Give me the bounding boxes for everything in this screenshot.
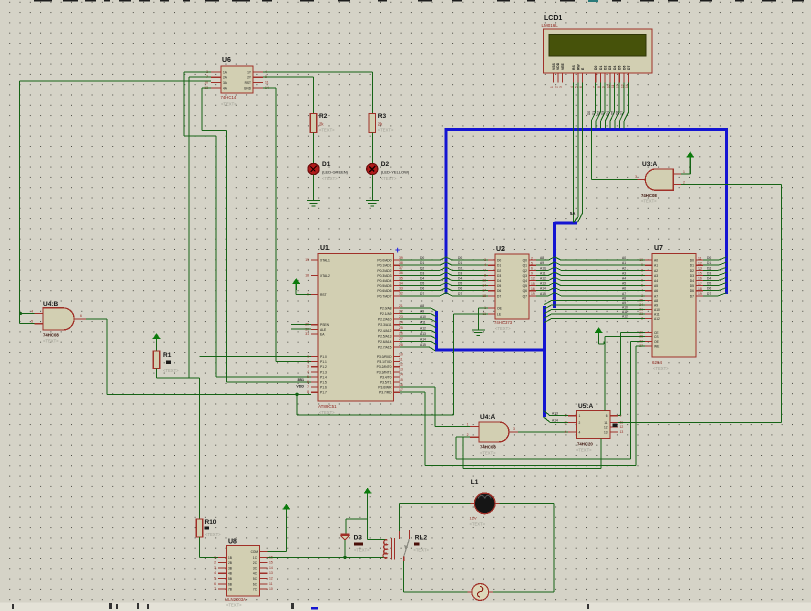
svg-text:A2: A2: [622, 266, 626, 270]
svg-text:31: 31: [305, 332, 309, 336]
svg-text:A9: A9: [654, 304, 658, 308]
svg-text:D6: D6: [615, 111, 619, 115]
relay RL2 labels: [413, 535, 429, 553]
svg-text:2B: 2B: [228, 561, 232, 565]
wire U5:A pin6 up to U7 CE: [618, 332, 645, 415]
svg-text:(LED-YELLOW): (LED-YELLOW): [381, 170, 410, 175]
svg-text:7: 7: [484, 268, 486, 272]
svg-text:11: 11: [698, 256, 702, 260]
svg-text:R10: R10: [205, 519, 217, 526]
wire U4:A output to U5:A: [518, 431, 568, 433]
wire power down to coil top: [367, 496, 369, 540]
svg-text:18: 18: [305, 273, 309, 277]
svg-text:A13: A13: [552, 412, 558, 416]
U7 control pins: [639, 330, 660, 348]
svg-text:2: 2: [579, 421, 581, 425]
wire U6 right pin1 to R3: [263, 72, 372, 114]
svg-text:P0.3/AD3: P0.3/AD3: [377, 274, 391, 278]
wire LCD E down to bus: [578, 82, 583, 222]
svg-text:19: 19: [698, 292, 702, 296]
wire U4:B output to U1 P1.7 and down: [86, 319, 311, 394]
power arrow at U1 RST: [292, 279, 300, 290]
svg-text:D5: D5: [497, 284, 501, 288]
svg-text:R1: R1: [163, 352, 172, 359]
wire D2 to ground: [371, 175, 373, 196]
svg-text:<TEXT>: <TEXT>: [319, 410, 335, 415]
wire coil top feed: [368, 539, 386, 541]
svg-text:D3: D3: [497, 274, 501, 278]
svg-text:D4: D4: [497, 279, 501, 283]
U4:B output pin: [74, 314, 86, 319]
svg-text:1: 1: [214, 555, 216, 559]
svg-text:D3: D3: [608, 66, 612, 70]
svg-text:A1: A1: [622, 261, 626, 265]
svg-text:D4: D4: [707, 277, 711, 281]
ground: [472, 325, 485, 335]
svg-text:D1: D1: [420, 261, 424, 265]
svg-text:33: 33: [399, 287, 403, 291]
svg-text:17: 17: [698, 282, 702, 286]
wire U6 pin4 staircase to U1 P1.5: [202, 88, 311, 382]
svg-text:7B: 7B: [228, 588, 232, 592]
wire U1 P1.0 row: [200, 356, 312, 358]
svg-text:A13: A13: [420, 332, 426, 336]
svg-text:D1: D1: [690, 264, 694, 268]
svg-text:6: 6: [214, 582, 216, 586]
U4:B input pins: [31, 309, 43, 323]
svg-text:VDD: VDD: [556, 62, 560, 70]
svg-text:34: 34: [399, 281, 403, 285]
svg-text:U8: U8: [228, 539, 237, 546]
svg-text:A11: A11: [654, 313, 660, 317]
svg-text:5A: 5A: [570, 211, 575, 216]
wire U2 OE to ground: [478, 308, 488, 325]
svg-text:D1: D1: [322, 161, 331, 168]
wire U8 COM to power: [268, 512, 287, 552]
svg-text:P3.1/TXD: P3.1/TXD: [377, 360, 392, 364]
svg-text:2: 2: [531, 256, 533, 260]
svg-text:<TEXT>: <TEXT>: [470, 522, 486, 527]
svg-text:<TEXT>: <TEXT>: [413, 548, 429, 553]
svg-text:D6: D6: [622, 66, 626, 70]
svg-text:A15: A15: [420, 343, 426, 347]
wire R1 to R10: [157, 369, 200, 520]
resistor R10: [196, 519, 221, 537]
svg-text:13: 13: [698, 267, 702, 271]
svg-text:Q2: Q2: [523, 269, 528, 273]
svg-text:U1: U1: [320, 245, 329, 252]
svg-text:A8: A8: [540, 256, 544, 260]
power arrow above U3:A: [687, 153, 695, 164]
svg-text:GND: GND: [244, 86, 252, 90]
svg-text:P1.7: P1.7: [320, 391, 327, 395]
U2 D pins: [482, 258, 501, 298]
ground: [307, 196, 320, 206]
svg-text:RS: RS: [572, 65, 576, 70]
svg-text:Q0: Q0: [523, 259, 528, 263]
svg-text:P0.0/AD0: P0.0/AD0: [377, 259, 391, 263]
svg-text:13: 13: [269, 571, 273, 575]
wire loop bottom-right: [493, 591, 554, 593]
svg-text:6B: 6B: [228, 582, 232, 586]
svg-text:Q6: Q6: [523, 289, 528, 293]
svg-text:13: 13: [482, 279, 486, 283]
svg-text:A14: A14: [540, 287, 546, 291]
svg-text:D2: D2: [420, 266, 424, 270]
wire U4:A input2 from below: [456, 437, 470, 459]
svg-text:9: 9: [531, 272, 533, 276]
bus exits to U5:A inputs: [544, 411, 568, 423]
U2 OE LE pins: [482, 306, 502, 317]
svg-text:U7: U7: [654, 245, 663, 252]
svg-text:RL2: RL2: [415, 535, 428, 542]
wire U7 CS to U5:A top: [605, 337, 645, 411]
microcontroller U1: [318, 245, 394, 415]
U6 right pins: [244, 70, 269, 90]
svg-text:D1: D1: [599, 66, 603, 70]
net labels D0-D7 at bus entries: [587, 111, 624, 115]
wire stubs PSEN ALE: [291, 324, 311, 326]
svg-text:LM016L: LM016L: [542, 23, 559, 28]
svg-text:D4: D4: [690, 279, 694, 283]
cropped text marks along top edge: [34, 0, 804, 2]
svg-text:ALE: ALE: [320, 328, 327, 332]
svg-text:D3: D3: [354, 535, 363, 542]
svg-text:10: 10: [399, 352, 403, 356]
svg-text:3B1: 3B1: [297, 378, 304, 382]
svg-text:D7: D7: [690, 294, 694, 298]
U4:A output pin: [509, 427, 518, 432]
svg-text:P1.5: P1.5: [320, 381, 327, 385]
svg-text:D0: D0: [690, 259, 694, 263]
wire U6 pin2 down to R10 line: [189, 77, 211, 378]
wire U6 right pin4 to U1 P1.1: [263, 88, 311, 362]
wire loop bottom-left: [404, 591, 468, 593]
svg-text:74HC20: 74HC20: [577, 442, 593, 447]
svg-text:D5: D5: [690, 284, 694, 288]
svg-text:<TEXT>: <TEXT>: [576, 448, 592, 453]
svg-text:P0.5/AD5: P0.5/AD5: [377, 284, 391, 288]
wire U1 P3.6 to U4:A input1: [400, 387, 470, 427]
svg-text:Q7: Q7: [523, 294, 528, 298]
svg-text:10: 10: [269, 587, 273, 591]
wire loop right vertical: [553, 503, 555, 592]
svg-text:7: 7: [307, 385, 309, 389]
svg-text:15: 15: [399, 378, 403, 382]
wire motor loop top-left: [400, 502, 471, 504]
svg-text:16: 16: [399, 383, 403, 387]
svg-text:D7: D7: [497, 294, 501, 298]
svg-text:5: 5: [531, 261, 533, 265]
svg-text:24: 24: [399, 321, 403, 325]
svg-text:<TEXT>: <TEXT>: [378, 128, 394, 133]
svg-text:D3: D3: [601, 111, 605, 115]
svg-text:OE: OE: [654, 340, 660, 344]
svg-text:A14: A14: [552, 418, 558, 422]
resistor R3: [369, 113, 394, 133]
svg-text:D5: D5: [458, 282, 462, 286]
svg-text:U5:A: U5:A: [578, 403, 593, 410]
svg-text:P2.5/A13: P2.5/A13: [378, 334, 392, 338]
svg-text:P1.6: P1.6: [320, 386, 327, 390]
svg-text:27: 27: [399, 337, 403, 341]
svg-text:D2: D2: [597, 111, 601, 115]
svg-text:A8: A8: [654, 299, 658, 303]
wire U3:A input1 to power: [681, 160, 690, 175]
svg-text:D2: D2: [707, 266, 711, 270]
svg-text:ULN2003A: ULN2003A: [225, 597, 246, 602]
svg-text:(LED-GREEN): (LED-GREEN): [322, 170, 349, 175]
svg-text:VEE: VEE: [561, 62, 565, 70]
svg-text:<TEXT>: <TEXT>: [205, 532, 221, 537]
svg-text:OE: OE: [497, 307, 503, 311]
wire arrow to R1: [156, 341, 158, 351]
svg-text:2: 2: [683, 180, 685, 184]
svg-text:XTAL1: XTAL1: [320, 259, 330, 263]
svg-text:2: 2: [307, 360, 309, 364]
wires bus to U7 A0-A7: [555, 256, 645, 296]
svg-text:P2.1/A9: P2.1/A9: [380, 312, 392, 316]
svg-text:13: 13: [399, 368, 403, 372]
wire arrow toward U7 controls: [599, 335, 604, 344]
bus right vertical: [725, 128, 728, 294]
svg-text:5C: 5C: [253, 577, 258, 581]
svg-text:Q3: Q3: [523, 274, 528, 278]
U1 P3 pins: [377, 352, 403, 394]
svg-text:A8: A8: [622, 297, 626, 301]
svg-text:P1.0: P1.0: [320, 355, 327, 359]
svg-text:RST: RST: [320, 293, 327, 297]
svg-text:A6: A6: [622, 287, 626, 291]
wires bus to U2 D pins: [446, 256, 488, 296]
bus main horizontal: [446, 128, 727, 131]
wire R10 to U8: [200, 537, 219, 557]
svg-text:AT89C51: AT89C51: [318, 404, 337, 409]
svg-text:<TEXT>: <TEXT>: [226, 603, 242, 608]
wire LCD RW down to bus: [574, 82, 578, 222]
svg-text:1B: 1B: [228, 556, 232, 560]
svg-text:P2.6/A14: P2.6/A14: [378, 340, 392, 344]
wire U5:A bottom pin down-left: [463, 437, 601, 469]
svg-text:17: 17: [482, 289, 486, 293]
svg-text:D3: D3: [690, 274, 694, 278]
wire long left to U4:B from U6 pin3: [19, 81, 211, 324]
bus left vertical: [445, 128, 448, 294]
svg-text:D0: D0: [420, 256, 424, 260]
wire arrow to RST: [296, 286, 311, 295]
svg-text:A12: A12: [420, 326, 426, 330]
svg-text:14: 14: [399, 373, 403, 377]
wire LCD D0 to gate U3:A output: [591, 82, 638, 179]
wires LCD D1-D7 into bus: [596, 82, 629, 128]
svg-text:RW: RW: [576, 64, 580, 70]
svg-text:15: 15: [531, 282, 535, 286]
svg-text:XTAL2: XTAL2: [320, 274, 330, 278]
svg-text:12: 12: [399, 363, 403, 367]
svg-text:D4: D4: [613, 66, 617, 70]
svg-text:A13: A13: [540, 282, 546, 286]
svg-text:<TEXT>: <TEXT>: [322, 176, 338, 181]
U4:A input pins: [467, 423, 479, 438]
svg-text:LCD1: LCD1: [544, 15, 562, 22]
svg-text:12: 12: [620, 425, 624, 429]
svg-text:25: 25: [399, 326, 403, 330]
svg-text:D7: D7: [420, 292, 424, 296]
svg-text:6C: 6C: [253, 582, 258, 586]
svg-text:A10: A10: [622, 306, 628, 310]
svg-text:<TEXT>: <TEXT>: [381, 176, 397, 181]
svg-text:2: 2: [467, 433, 469, 437]
svg-text:D2: D2: [381, 161, 390, 168]
svg-text:D5: D5: [707, 282, 711, 286]
svg-text:12: 12: [604, 425, 608, 429]
svg-text:7C: 7C: [253, 588, 258, 592]
relay RL2 coil: [383, 540, 387, 559]
svg-text:A15: A15: [540, 292, 546, 296]
svg-text:3: 3: [559, 86, 563, 88]
svg-text:28: 28: [399, 343, 403, 347]
svg-text:5: 5: [307, 375, 309, 379]
wire U2 LE from below: [454, 314, 489, 415]
svg-text:D4: D4: [458, 277, 462, 281]
svg-text:A8: A8: [420, 304, 424, 308]
svg-text:6264: 6264: [652, 360, 663, 365]
svg-text:A0: A0: [622, 256, 626, 260]
LCD LCD1: [542, 15, 653, 73]
AC source: [468, 584, 494, 601]
svg-text:D4: D4: [420, 277, 424, 281]
svg-text:11: 11: [265, 80, 269, 84]
wire U6 pin1 staircase to U1 P1.4: [184, 72, 311, 377]
bus short horizontal near LCD wires: [555, 222, 577, 225]
svg-text:<TEXT>: <TEXT>: [653, 366, 669, 371]
svg-text:6: 6: [80, 314, 82, 318]
bus middle vertical: [553, 222, 556, 308]
latch U2: [494, 246, 529, 331]
svg-text:U4:B: U4:B: [43, 301, 58, 308]
svg-text:38: 38: [399, 261, 403, 265]
wire D3 anode down to drive wire: [343, 540, 346, 559]
svg-text:<TEXT>: <TEXT>: [163, 368, 179, 373]
svg-text:1: 1: [579, 414, 581, 418]
svg-text:D6: D6: [690, 289, 694, 293]
svg-text:12: 12: [698, 261, 702, 265]
power arrow near U7 controls: [595, 328, 603, 339]
svg-text:Q4: Q4: [523, 279, 528, 283]
svg-text:A10: A10: [420, 315, 426, 319]
svg-text:<TEXT>: <TEXT>: [354, 548, 370, 553]
svg-text:1: 1: [683, 170, 685, 174]
svg-text:4: 4: [579, 431, 581, 435]
svg-text:39: 39: [399, 256, 403, 260]
U1 P2 pins: [378, 304, 403, 350]
svg-text:U3:A: U3:A: [642, 161, 657, 168]
U7 address pins: [639, 258, 660, 321]
svg-text:6: 6: [606, 414, 608, 418]
LCD pin name labels: [552, 62, 631, 70]
bus middle-low vertical: [543, 306, 546, 417]
svg-text:P2.3/A11: P2.3/A11: [378, 323, 391, 327]
svg-text:18: 18: [482, 294, 486, 298]
svg-text:A14: A14: [420, 337, 426, 341]
svg-text:D5: D5: [420, 282, 424, 286]
svg-text:D6: D6: [497, 289, 501, 293]
svg-text:13: 13: [604, 431, 608, 435]
svg-text:P3.5/T1: P3.5/T1: [380, 381, 392, 385]
wire R2 to D1: [313, 133, 315, 164]
svg-text:22: 22: [399, 309, 403, 313]
gate U5:A: [576, 403, 610, 453]
svg-text:P0.6/AD6: P0.6/AD6: [377, 289, 391, 293]
svg-text:A6: A6: [654, 289, 658, 293]
svg-text:74HC08: 74HC08: [480, 445, 496, 450]
svg-text:A5: A5: [654, 284, 658, 288]
wires U2 Q into middle bus: [536, 256, 555, 296]
svg-text:16: 16: [531, 287, 535, 291]
svg-text:6: 6: [531, 267, 533, 271]
svg-text:D1: D1: [592, 111, 596, 115]
wire R3 to D2: [371, 133, 373, 164]
svg-text:Q1: Q1: [523, 264, 528, 268]
svg-text:D6: D6: [420, 287, 424, 291]
svg-text:R2: R2: [319, 113, 328, 120]
svg-text:1C: 1C: [253, 556, 258, 560]
svg-text:A4: A4: [654, 279, 658, 283]
svg-text:A11: A11: [540, 271, 546, 275]
U2 Q pins: [523, 256, 536, 298]
svg-text:13: 13: [620, 430, 624, 434]
darlington array U8: [225, 539, 260, 608]
diode D3: [340, 534, 370, 552]
ground: [366, 196, 379, 206]
svg-text:R3: R3: [378, 113, 387, 120]
wire U6 right pin2 to R2: [263, 77, 314, 113]
svg-text:A10: A10: [540, 266, 546, 270]
svg-text:D1: D1: [458, 261, 462, 265]
svg-text:D7: D7: [627, 66, 631, 70]
svg-text:D4: D4: [606, 111, 610, 115]
memory U7: [652, 245, 696, 371]
U8 output pins: [253, 555, 273, 591]
svg-text:<TEXT>: <TEXT>: [495, 326, 511, 331]
LCD pins: [550, 73, 629, 88]
svg-text:8: 8: [484, 273, 486, 277]
svg-text:D7: D7: [458, 292, 462, 296]
svg-text:D0: D0: [707, 256, 711, 260]
svg-text:A12: A12: [654, 317, 660, 321]
svg-text:6: 6: [307, 380, 309, 384]
svg-text:P3.0/RXD: P3.0/RXD: [377, 355, 392, 359]
svg-text:37: 37: [399, 266, 403, 270]
svg-text:4B: 4B: [228, 572, 232, 576]
svg-text:3C: 3C: [253, 566, 258, 570]
wires bus to U7 A8-A12: [544, 297, 645, 323]
bottom window strip: [0, 603, 811, 611]
svg-text:U2: U2: [496, 246, 505, 253]
wire contact to bottom: [403, 561, 405, 592]
svg-text:CS: CS: [654, 335, 659, 339]
svg-text:12: 12: [531, 277, 535, 281]
svg-text:P3.6/WR: P3.6/WR: [378, 386, 392, 390]
svg-text:P2.4/A12: P2.4/A12: [378, 329, 392, 333]
svg-text:32: 32: [399, 292, 403, 296]
svg-text:A3: A3: [654, 274, 658, 278]
svg-text:WE: WE: [654, 345, 660, 349]
svg-text:D3: D3: [420, 271, 424, 275]
svg-text:D2: D2: [604, 66, 608, 70]
svg-text:74HC14: 74HC14: [221, 95, 237, 100]
svg-text:COM: COM: [251, 550, 259, 554]
